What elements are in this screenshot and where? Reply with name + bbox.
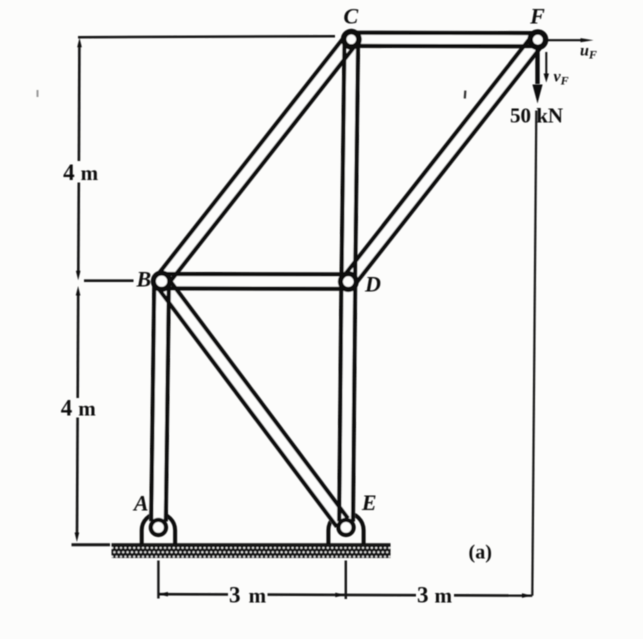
svg-text:B: B	[135, 267, 151, 292]
member CF fill	[351, 31, 538, 49]
svg-text:m: m	[78, 397, 96, 421]
vF arrowhead	[544, 74, 549, 83]
member BE edges	[156, 277, 348, 527]
uF arrow	[544, 39, 583, 41]
extension line top to C	[78, 36, 335, 37]
member AB fill	[149, 281, 171, 521]
svg-text:3: 3	[417, 582, 429, 607]
support E outline	[328, 513, 363, 545]
member DF fill	[341, 34, 545, 287]
bottom dimension line 3m+3m	[158, 594, 532, 595]
svg-text:F: F	[529, 4, 545, 29]
svg-text:(a): (a)	[469, 542, 492, 564]
svg-text:4: 4	[63, 160, 75, 185]
support A outline	[142, 514, 175, 545]
50kN arrow	[535, 45, 539, 84]
dim arrow up (top of left dim)	[77, 38, 82, 48]
svg-text:A: A	[132, 491, 149, 516]
ground hatch band	[112, 547, 391, 558]
vF arrow	[545, 52, 547, 74]
left dimension line 4m+4m	[77, 45, 79, 534]
member BD edges	[162, 274, 349, 289]
right vertical line from F	[532, 111, 536, 596]
stray mark left margin	[37, 90, 39, 97]
pin A	[149, 518, 168, 537]
ground level tick	[72, 543, 111, 546]
50kN arrowhead	[532, 85, 542, 104]
member BC edges	[156, 35, 357, 286]
dim arrow right (below F)	[522, 593, 532, 598]
dim arrow left (at A)	[158, 592, 168, 597]
svg-text:m: m	[81, 161, 99, 185]
svg-text:D: D	[364, 272, 381, 297]
svg-text:m: m	[435, 583, 453, 607]
member DE fill	[337, 282, 357, 522]
member BD fill	[162, 272, 349, 291]
pin E	[336, 518, 355, 537]
extension below A	[157, 561, 159, 599]
member DE edges	[339, 282, 355, 522]
member CD fill	[339, 39, 360, 282]
joint F blob+pin	[527, 29, 548, 50]
joint B blob+pin	[151, 270, 173, 292]
ground surface line	[112, 543, 391, 547]
dim arrow down (ground level)	[75, 533, 80, 543]
joint D blob+pin	[338, 271, 359, 292]
svg-text:50 kN: 50 kN	[510, 104, 563, 128]
member CD edges	[342, 39, 359, 282]
svg-text:m: m	[249, 584, 267, 608]
svg-text:C: C	[343, 4, 358, 29]
member BC fill	[154, 34, 358, 287]
svg-text:E: E	[361, 490, 377, 515]
dim arrow up (B level)	[76, 286, 81, 296]
member AB edges	[151, 281, 169, 521]
dim arrow down (B level)	[76, 271, 81, 281]
svg-text:4: 4	[61, 396, 73, 421]
uF arrowhead	[581, 38, 594, 42]
member BE fill	[154, 276, 349, 528]
member CF edges	[351, 33, 538, 47]
joint C blob+pin	[341, 29, 362, 50]
extension below E	[345, 561, 347, 600]
dim arrow right (at E)	[335, 593, 345, 598]
stray mark near 50kN	[464, 90, 467, 98]
extension tick at B	[84, 279, 134, 282]
member DF edges	[343, 35, 544, 286]
svg-text:3: 3	[229, 583, 241, 608]
